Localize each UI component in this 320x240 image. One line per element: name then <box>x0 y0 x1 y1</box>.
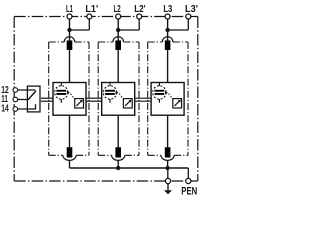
svg-text:L2': L2' <box>134 4 145 15</box>
svg-text:14: 14 <box>1 104 9 115</box>
svg-text:L2: L2 <box>114 4 121 15</box>
svg-text:L1: L1 <box>66 4 73 15</box>
svg-text:PEN: PEN <box>181 186 197 198</box>
svg-text:L3: L3 <box>163 4 172 15</box>
svg-text:L1': L1' <box>85 4 98 15</box>
svg-text:L3': L3' <box>185 4 198 15</box>
